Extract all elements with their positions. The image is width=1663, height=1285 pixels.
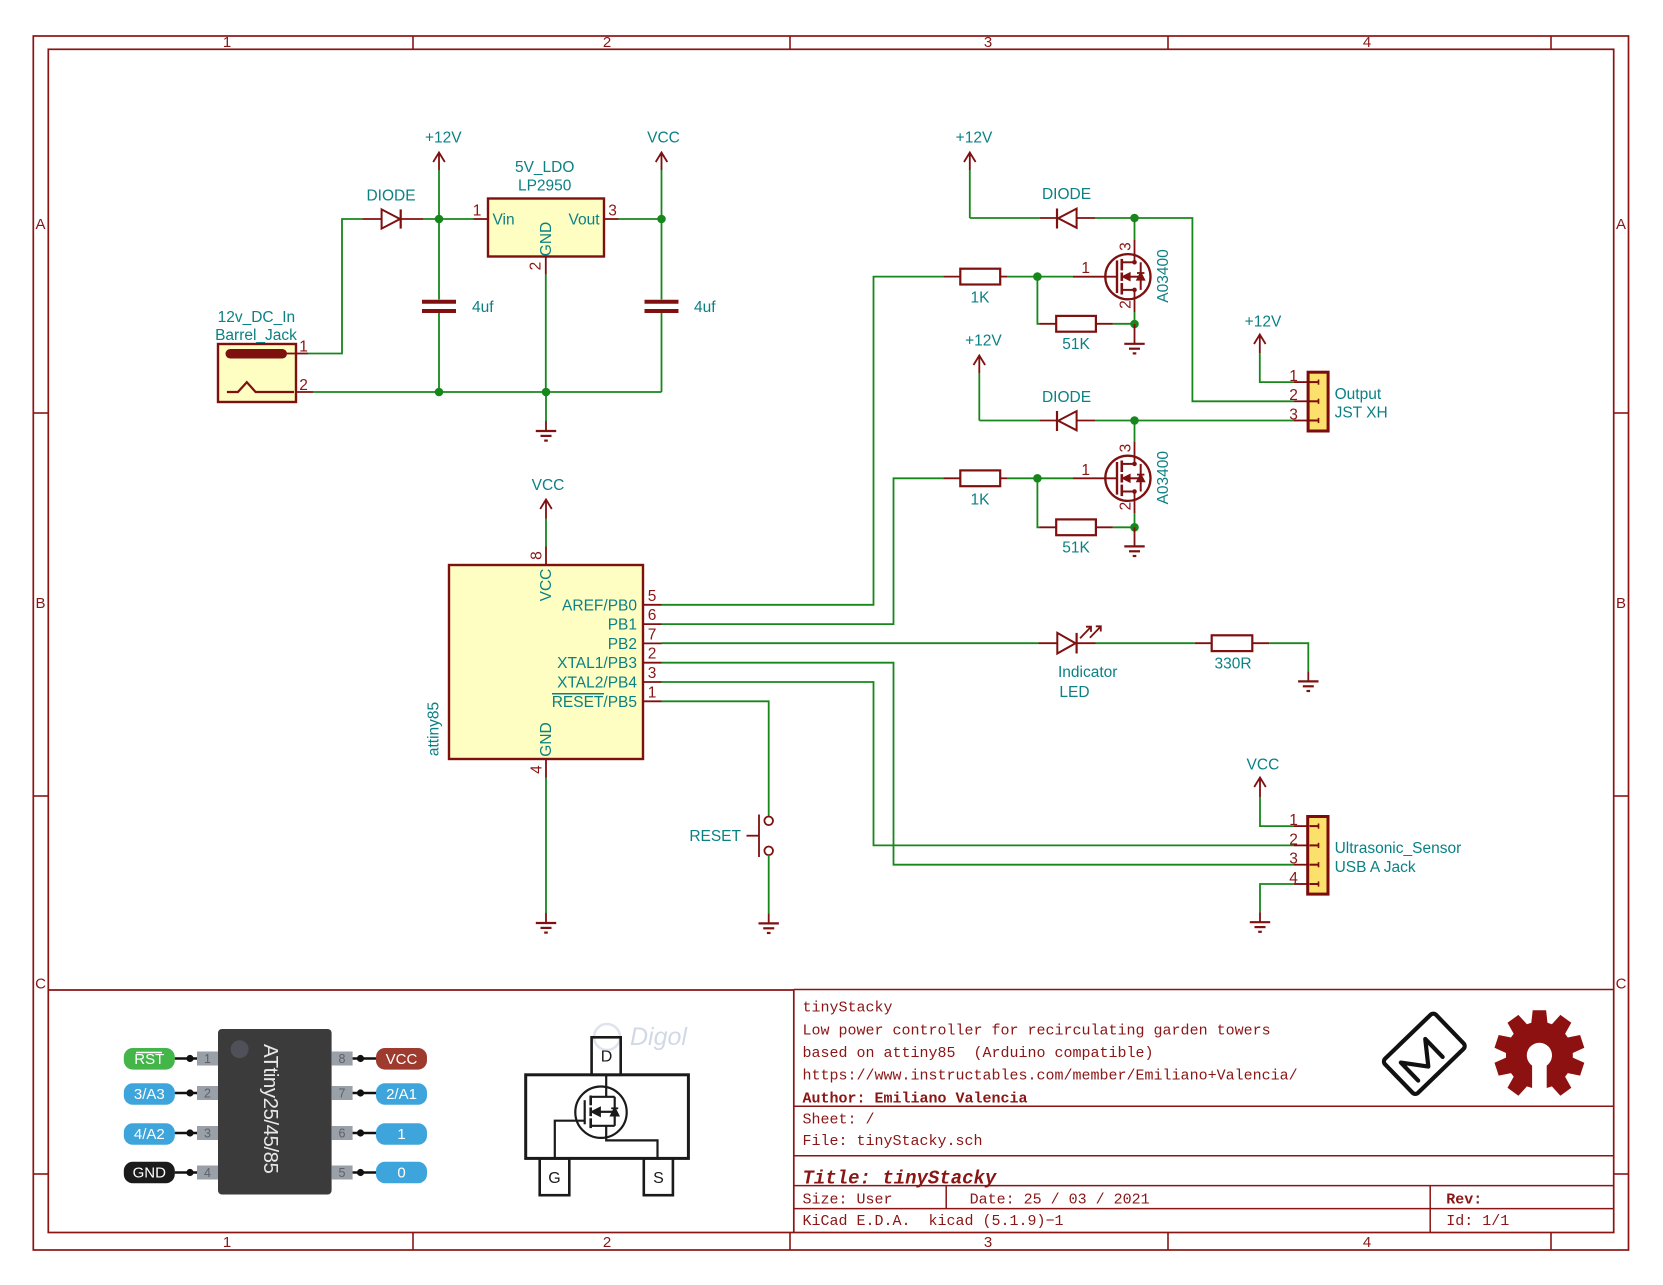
svg-text:VCC: VCC [1247, 757, 1280, 774]
frame column ticks top [413, 36, 1551, 49]
svg-text:51K: 51K [1062, 336, 1090, 353]
svg-text:1K: 1K [971, 290, 991, 307]
power flag +12V (output) [1245, 314, 1282, 354]
diode D1 [362, 209, 423, 228]
junction drain 2 [1130, 416, 1139, 425]
junction at +12V node [435, 215, 444, 224]
svg-text:Digol: Digol [630, 1023, 688, 1051]
svg-text:Title: tinyStacky: Title: tinyStacky [803, 1168, 998, 1190]
MCU U2 pin 6 PB1 [608, 607, 662, 634]
MCU U2 attiny85 body [449, 565, 643, 759]
svg-text:330R: 330R [1214, 656, 1251, 673]
svg-text:3/A3: 3/A3 [134, 1086, 165, 1103]
MCU U2 pin 3 XTAL2/PB4 [557, 665, 661, 692]
svg-text:RESET/PB5: RESET/PB5 [552, 694, 637, 711]
transistor Q1 A03400 [1073, 240, 1151, 312]
regulator U1 LP2950 body [488, 199, 604, 257]
wire R2 to source node [1113, 323, 1135, 325]
frame column labels top [223, 34, 1371, 51]
connector J3 pin 3 [1289, 851, 1307, 868]
svg-text:4uf: 4uf [694, 299, 716, 316]
MCU U2 pin 4 GND [529, 722, 556, 777]
svg-text:2/A1: 2/A1 [386, 1086, 417, 1103]
svg-text:3: 3 [648, 665, 657, 682]
attiny pinout image: GND pill [124, 1162, 175, 1184]
wire drain node 2 to Q2 [1134, 421, 1136, 443]
connector J1 pin 1 [296, 339, 308, 356]
transistor Q2 pin labels [1081, 444, 1134, 511]
svg-text:DIODE: DIODE [1042, 186, 1091, 203]
svg-text:VCC: VCC [647, 130, 680, 147]
svg-text:KiCad E.D.A. kicad (5.1.9)−1: KiCad E.D.A. kicad (5.1.9)−1 [803, 1213, 1064, 1230]
wire RESET/PB5 to switch [662, 701, 769, 816]
wire PB1 to gate resistor 2 [662, 478, 944, 624]
wire switch to ground [768, 855, 770, 913]
connector J3 pin 2 [1289, 831, 1307, 848]
svg-text:0: 0 [397, 1165, 405, 1182]
svg-text:JST XH: JST XH [1335, 405, 1388, 422]
diode D2 (flyback 1) [1040, 209, 1096, 229]
connector J2 pin 1 [1289, 368, 1308, 385]
switch SW1 RESET [747, 815, 774, 858]
svg-text:VCC: VCC [532, 477, 565, 494]
svg-text:3: 3 [1118, 444, 1135, 453]
svg-text:1: 1 [1289, 368, 1298, 385]
attiny pinout image: chip body [218, 1029, 332, 1195]
wire D2 to drain node 1 [1095, 217, 1134, 219]
power flag +12V (input) [425, 130, 462, 220]
wire +12V to diode D2 [970, 217, 1040, 219]
svg-text:1: 1 [648, 684, 657, 701]
svg-text:LP2950: LP2950 [518, 178, 572, 195]
connector J2 Output JST XH body [1308, 372, 1328, 431]
svg-text:DIODE: DIODE [366, 188, 415, 205]
svg-text:1: 1 [473, 203, 482, 220]
svg-text:4: 4 [1363, 1234, 1371, 1251]
svg-text:8: 8 [529, 551, 546, 560]
svg-text:GND: GND [538, 222, 555, 256]
MCU U2 pin 7 PB2 [608, 626, 662, 653]
connector J2 pin 3 [1289, 406, 1308, 423]
svg-text:AREF/PB0: AREF/PB0 [562, 597, 637, 614]
svg-text:USB A Jack: USB A Jack [1335, 859, 1416, 876]
connector J3 pin 1 [1289, 812, 1307, 829]
svg-text:GND: GND [538, 722, 555, 756]
svg-text:B: B [35, 595, 45, 612]
svg-text:51K: 51K [1062, 540, 1090, 557]
wire drain node 1 to output pin 2 [1135, 218, 1295, 401]
junction drain 1 [1130, 214, 1139, 223]
LED D4 indicator [1038, 626, 1100, 653]
svg-text:2: 2 [528, 262, 545, 271]
svg-text:Author: Emiliano Valencia: Author: Emiliano Valencia [803, 1091, 1028, 1108]
svg-text:Low power controller for recir: Low power controller for recirculating g… [803, 1023, 1271, 1040]
svg-text:Indicator: Indicator [1058, 664, 1117, 681]
wire 330R to ground [1269, 643, 1308, 671]
title block text [803, 1000, 1510, 1231]
svg-text:1: 1 [1289, 812, 1298, 829]
wire sensor pin 4 to ground [1260, 884, 1294, 912]
junction rail at C1 [435, 388, 444, 397]
svg-text:8: 8 [339, 1052, 346, 1066]
resistor R4 51K [1039, 519, 1113, 535]
svg-text:2: 2 [648, 646, 657, 663]
attiny pinout image: 0 pill [376, 1162, 427, 1184]
svg-text:VCC: VCC [386, 1051, 418, 1068]
svg-text:tinyStacky: tinyStacky [803, 1000, 893, 1017]
MCU U2 pin 1 RESET/PB5 [552, 684, 662, 711]
power flag +12V (drain 1) [956, 130, 993, 219]
svg-text:7: 7 [339, 1087, 346, 1101]
ground symbol (attiny) [536, 913, 556, 933]
frame row ticks right [1614, 413, 1629, 1174]
svg-text:12v_DC_In: 12v_DC_In [218, 309, 296, 326]
svg-text:LED: LED [1059, 684, 1089, 701]
junction gate 1 [1033, 272, 1042, 281]
resistor R5 330R [1195, 635, 1270, 651]
svg-text:4uf: 4uf [472, 299, 494, 316]
svg-text:S: S [653, 1170, 664, 1187]
bottom-left box border [48, 990, 794, 1233]
attiny pinout image: 1 pill [376, 1123, 427, 1145]
wire PB2 to LED [662, 642, 1039, 644]
wire R3 to gate 2 [1007, 477, 1073, 479]
ground symbol (reset switch) [759, 913, 779, 933]
MCU U2 pin 2 XTAL1/PB3 [557, 646, 661, 673]
wire XTAL2/PB4 to sensor pin 2 [662, 682, 1295, 845]
regulator U1 pin 2 GND [528, 222, 556, 275]
wire drain node 1 to Q1 [1134, 218, 1136, 240]
power flag +12V (drain 2) [965, 333, 1002, 421]
wire Q2 source to junction [1134, 513, 1136, 527]
junction source 2 [1130, 523, 1139, 532]
svg-text:PB2: PB2 [608, 636, 637, 653]
svg-text:VCC: VCC [538, 569, 555, 602]
svg-text:1: 1 [397, 1126, 405, 1143]
wire jack pin1 to diode [308, 219, 362, 354]
svg-text:Date: 25 / 03 / 2021: Date: 25 / 03 / 2021 [970, 1192, 1150, 1209]
svg-text:2: 2 [1118, 502, 1135, 511]
svg-text:3: 3 [984, 1234, 992, 1251]
svg-text:PB1: PB1 [608, 617, 637, 634]
svg-text:+12V: +12V [425, 130, 462, 147]
wire junction down to R2 [1037, 277, 1039, 324]
svg-text:2: 2 [1289, 387, 1298, 404]
title block border [794, 990, 1614, 1233]
svg-text:+12V: +12V [956, 130, 993, 147]
svg-text:C: C [1616, 976, 1627, 993]
power flag VCC (attiny) [532, 477, 565, 519]
ground symbol (mosfet 1) [1124, 324, 1144, 353]
svg-text:Size: User: Size: User [803, 1192, 893, 1209]
svg-text:RESET: RESET [689, 828, 741, 845]
wire Vout to VCC node [619, 218, 662, 220]
svg-text:Vin: Vin [493, 212, 515, 229]
regulator U1 pin 1 Vin [473, 203, 515, 229]
svg-text:2: 2 [603, 1234, 611, 1251]
attiny pinout image: 3/A3 pill [124, 1083, 175, 1105]
attiny pinout image: pin pads [197, 1052, 353, 1180]
svg-text:1: 1 [1081, 462, 1090, 479]
svg-text:4/A2: 4/A2 [134, 1126, 165, 1143]
frame column labels bottom [223, 1234, 1371, 1251]
junction gate 2 [1033, 474, 1042, 483]
svg-text:A03400: A03400 [1155, 249, 1172, 303]
frame column ticks bottom [413, 1233, 1551, 1251]
svg-text:RST: RST [134, 1051, 164, 1068]
ground symbol (LED) [1298, 671, 1318, 691]
mosfet package image: watermark [594, 1023, 688, 1051]
mosfet package image: pad letters [548, 1049, 664, 1188]
svg-text:A: A [1616, 216, 1626, 233]
connector J1 barrel jack body [218, 344, 296, 402]
instructables logo [1382, 1012, 1466, 1095]
capacitor C1 4uf [422, 219, 456, 392]
junction at VCC node [657, 215, 666, 224]
svg-text:+12V: +12V [965, 333, 1002, 350]
wire attiny gnd [545, 778, 547, 914]
wire U1 gnd pin down [545, 275, 547, 392]
svg-text:Barrel_Jack: Barrel_Jack [215, 327, 297, 344]
svg-text:1: 1 [204, 1052, 211, 1066]
wire +12V to diode D3 [979, 420, 1039, 422]
svg-text:3: 3 [204, 1127, 211, 1141]
resistor R1 1K [943, 269, 1007, 285]
svg-text:https://www.instructables.com/: https://www.instructables.com/member/Emi… [803, 1068, 1298, 1085]
mosfet package image: body [526, 1037, 689, 1195]
wire diode to Vin [423, 218, 473, 220]
svg-text:Ultrasonic_Sensor: Ultrasonic_Sensor [1335, 840, 1462, 857]
svg-text:3: 3 [1118, 242, 1135, 251]
frame row ticks left [33, 413, 48, 1174]
wire VCC flag to pin 8 [545, 519, 547, 547]
regulator U1 pin 3 Vout [568, 203, 618, 229]
attiny pinout image: leader lines and dots [175, 1059, 376, 1173]
svg-text:Id: 1/1: Id: 1/1 [1446, 1213, 1509, 1230]
svg-text:1: 1 [223, 1234, 231, 1251]
svg-text:+12V: +12V [1245, 314, 1282, 331]
wire VCC to sensor pin 1 [1260, 797, 1294, 826]
svg-text:5: 5 [648, 588, 657, 605]
svg-text:6: 6 [339, 1127, 346, 1141]
MCU U2 pin 5 AREF/PB0 [562, 588, 661, 615]
svg-text:XTAL1/PB3: XTAL1/PB3 [557, 655, 637, 672]
svg-text:based on attiny85 (Arduino co: based on attiny85 (Arduino compatible) [803, 1045, 1154, 1062]
MCU U2 pin 8 VCC [529, 547, 556, 602]
svg-text:2: 2 [1118, 300, 1135, 309]
svg-text:3: 3 [984, 34, 992, 51]
wire ground rail [313, 391, 662, 393]
svg-text:G: G [548, 1170, 560, 1187]
attiny pinout image: VCC pill [376, 1048, 427, 1070]
svg-text:2: 2 [299, 377, 308, 394]
svg-text:6: 6 [648, 607, 657, 624]
resistor R2 51K [1039, 316, 1113, 332]
svg-text:3: 3 [1289, 406, 1298, 423]
svg-text:attiny85: attiny85 [426, 702, 443, 756]
ground symbol (sensor) [1250, 912, 1270, 932]
svg-text:5: 5 [339, 1166, 346, 1180]
svg-text:ATtiny25/45/85: ATtiny25/45/85 [259, 1044, 282, 1173]
svg-text:Rev:: Rev: [1446, 1192, 1482, 1209]
wire drain node 2 to output pin 3 [1135, 420, 1295, 422]
svg-text:A03400: A03400 [1155, 451, 1172, 505]
transistor Q1 pin labels [1081, 242, 1134, 309]
wire +12V to output pin 1 [1260, 353, 1294, 382]
frame row labels [35, 216, 1627, 993]
connector J3 pin 4 [1289, 870, 1307, 887]
power flag VCC (sensor) [1247, 757, 1280, 798]
svg-text:C: C [35, 976, 46, 993]
svg-text:7: 7 [648, 626, 657, 643]
svg-text:1: 1 [299, 339, 308, 356]
connector J1 pin 2 [296, 377, 313, 394]
svg-text:1: 1 [223, 34, 231, 51]
svg-text:4: 4 [529, 765, 546, 774]
svg-text:GND: GND [133, 1165, 167, 1182]
svg-text:3: 3 [608, 203, 617, 220]
ground symbol (power rail) [536, 392, 556, 441]
wire PB0 to gate resistor 1 [662, 277, 944, 605]
transistor Q2 A03400 [1073, 442, 1151, 513]
wire R1 to gate [1007, 276, 1073, 278]
svg-text:DIODE: DIODE [1042, 389, 1091, 406]
svg-text:1: 1 [1081, 260, 1090, 277]
svg-text:5V_LDO: 5V_LDO [515, 159, 574, 176]
wire junction down to R4 [1037, 478, 1039, 527]
svg-text:XTAL2/PB4: XTAL2/PB4 [557, 675, 637, 692]
wire Q1 source to junction [1134, 312, 1136, 324]
svg-text:D: D [601, 1049, 613, 1066]
wire XTAL1/PB3 to sensor pin 3 [662, 663, 1295, 865]
junction source 1 [1130, 320, 1139, 329]
mosfet package image: symbol [555, 1075, 658, 1159]
svg-text:Vout: Vout [568, 212, 600, 229]
wire D3 to drain node 2 [1095, 420, 1134, 422]
capacitor C2 4uf [645, 219, 679, 392]
attiny pinout image: RST pill [124, 1048, 175, 1070]
svg-text:2: 2 [204, 1087, 211, 1101]
svg-text:1K: 1K [971, 492, 991, 509]
attiny pinout image: pad numbers [204, 1052, 346, 1180]
svg-text:2: 2 [603, 34, 611, 51]
resistor R3 1K [943, 470, 1007, 486]
svg-text:Sheet: /: Sheet: / [803, 1112, 875, 1129]
attiny pinout image: 4/A2 pill [124, 1123, 175, 1145]
attiny pinout image: 2/A1 pill [376, 1083, 427, 1105]
connector J3 Ultrasonic USB A body [1308, 817, 1328, 895]
svg-text:4: 4 [204, 1166, 211, 1180]
svg-text:A: A [35, 216, 45, 233]
svg-text:B: B [1616, 595, 1626, 612]
svg-text:4: 4 [1363, 34, 1371, 51]
power flag VCC (regulator output) [647, 130, 680, 220]
wire LED to 330R [1096, 642, 1195, 644]
connector J2 pin 2 [1289, 387, 1308, 404]
junction rail at U1 GND [542, 388, 551, 397]
svg-text:Output: Output [1335, 386, 1382, 403]
ground symbol (mosfet 2) [1124, 527, 1144, 556]
diode D3 (flyback 2) [1040, 411, 1096, 431]
wire R4 to source node 2 [1113, 526, 1135, 528]
OSHW gear logo [1495, 1010, 1585, 1095]
svg-text:File: tinyStacky.sch: File: tinyStacky.sch [803, 1133, 983, 1150]
